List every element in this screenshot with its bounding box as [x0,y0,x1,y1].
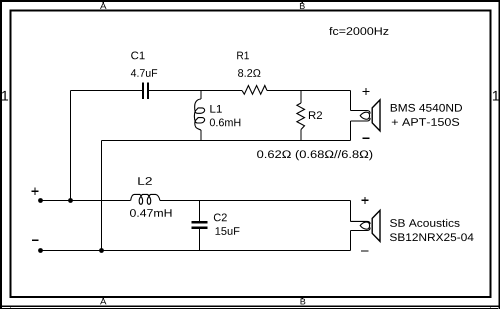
title fc=2000Hz [329,27,388,35]
zone tick bottom A [102,298,104,300]
value 8.2ohm [238,69,260,77]
woofer cone [372,210,380,241]
wire tweeter negative rail [102,140,351,142]
tweeter U1 [351,100,381,131]
zone tick top A [102,1,104,3]
capacitor C2 [192,222,208,227]
tweeter minus mark [362,137,369,139]
wire L1 bottom lead [200,130,202,141]
zone tick bottom B [301,298,303,300]
capacitor C1 [143,83,148,100]
resistor R2 [297,103,305,130]
next sheet top edge [2,308,498,309]
zone label A bottom [100,299,106,305]
wire R2 top lead [300,91,302,104]
zone tick top B [301,1,303,3]
label R1 [237,52,249,60]
label L2 [138,177,151,185]
value 0.47mH [130,209,172,217]
zone label A top [100,3,106,9]
value R2 note [257,150,372,160]
value 0.6mH [210,119,241,127]
resistor R1 [242,86,267,95]
woofer plus stub [351,221,371,224]
tweeter name line2 [392,118,459,126]
zone label 1 right [493,91,499,101]
label C2 [214,214,227,222]
wire top rail R1 to tweeter corner [267,90,351,92]
woofer U2 [351,210,381,241]
wire tweeter minus drop [350,121,352,141]
inductor L1 [194,99,204,130]
wire R2 bottom lead [300,130,302,141]
tweeter cone [372,100,380,131]
wire vertical tweeter neg to minus rail [101,141,103,251]
tweeter minus stub [351,118,371,121]
value 15uF [216,227,240,235]
woofer name line2 [390,233,474,241]
tweeter plus stub [351,111,371,114]
tweeter name line1 [391,104,462,112]
label L1 [210,105,221,113]
wire woofer plus drop [350,201,352,222]
junction dot input minus [38,248,43,253]
junction dot plus rail tap [68,198,73,203]
zone label B top [300,3,305,9]
wire tweeter plus drop [350,91,352,111]
label C1 [131,52,144,60]
input plus label [31,188,38,195]
value 4.7uF [131,69,157,77]
junction dot minus rail tap [99,248,104,253]
wire vertical input to C1 rail [70,91,72,201]
input minus label [32,239,38,241]
wire top rail C1 to R1 [149,90,243,92]
wire C2 top lead [199,201,201,222]
zone label B bottom [301,299,306,305]
wire plus rail to L2 [41,200,131,202]
tweeter plus mark [363,88,370,95]
woofer plus mark [362,197,369,204]
wire minus rail [41,250,351,252]
wire C2 bottom lead [199,229,201,251]
zone label 1 left [2,91,8,101]
wire L1 top lead [200,91,202,100]
wire top rail left of C1 [71,90,143,92]
woofer dome [360,222,369,229]
woofer name line1 [390,219,460,227]
woofer minus stub [351,228,371,231]
junction dot input plus [38,198,43,203]
wire L2 to woofer corner [160,200,351,202]
inductor L2 [131,194,160,204]
tweeter dome [360,112,369,119]
label R2 [309,111,322,119]
wire woofer minus drop [350,231,352,251]
woofer minus mark [361,250,368,252]
